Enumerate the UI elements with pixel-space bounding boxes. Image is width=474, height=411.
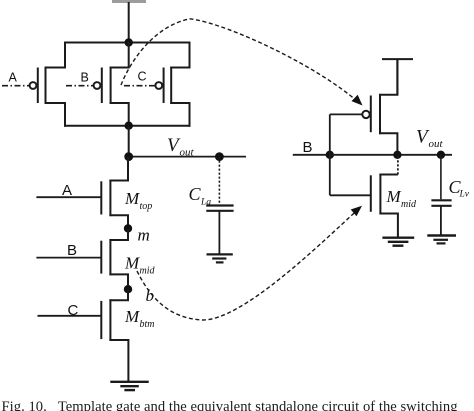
svg-text:B: B	[67, 242, 77, 259]
svg-text:M: M	[124, 307, 140, 326]
wire VDD stem (left)	[128, 2, 130, 43]
wire input A (stack)	[36, 196, 101, 198]
wire input B (stack)	[36, 257, 101, 259]
wire input C (stack)	[38, 315, 102, 317]
svg-text:out: out	[180, 147, 195, 159]
node Vout (right)	[437, 151, 445, 159]
wire VDD stem (right)	[396, 59, 398, 95]
svg-text:A: A	[62, 182, 72, 199]
ground (under C_Lv)	[427, 236, 456, 244]
capacitor C_Lg	[206, 157, 233, 254]
svg-text:C: C	[68, 302, 79, 319]
node top junction	[125, 38, 133, 46]
transistor M-B (PMOS B)	[94, 42, 129, 127]
wire stem to Vout row	[128, 126, 130, 157]
node bottom junction	[125, 122, 133, 130]
wire input A (dash-dot)	[2, 85, 30, 87]
capacitor C_Lv	[431, 155, 451, 235]
wire B to NMOS gate	[330, 194, 371, 196]
wire Vout row (left)	[129, 156, 246, 158]
svg-text:M: M	[386, 187, 402, 206]
svg-text:M: M	[124, 253, 140, 272]
transistor M-A (PMOS A)	[30, 42, 65, 127]
wire B to PMOS gate	[330, 113, 362, 115]
node Vout (left)	[124, 152, 133, 161]
transistor M_mid standalone (NMOS)	[371, 155, 398, 237]
svg-text:Lg: Lg	[200, 198, 211, 208]
wire B gate riser	[329, 114, 331, 195]
svg-text:C: C	[189, 184, 202, 204]
transistor M_btm (NMOS)	[101, 289, 128, 381]
dashed arrow bottom (node b region to standalone NMOS)	[137, 206, 362, 320]
dashed arrow top (pull-up network to standalone PMOS)	[121, 19, 363, 106]
node B (right)	[326, 151, 334, 159]
node CLg tap	[215, 152, 224, 161]
svg-text:m: m	[138, 225, 150, 244]
svg-text:top: top	[140, 201, 153, 212]
svg-text:btm: btm	[140, 319, 155, 330]
wire input B (dash-dot)	[66, 85, 94, 87]
svg-text:Lv: Lv	[459, 189, 470, 199]
ground (under C_Lg)	[207, 254, 233, 262]
node m	[124, 224, 132, 232]
wire B input (right)	[293, 154, 330, 156]
wire input C (dash-dot)	[124, 85, 155, 87]
node b	[124, 285, 132, 293]
svg-text:out: out	[429, 138, 444, 150]
power rail VDD bar (right)	[382, 58, 413, 60]
wire Vout row (right)	[330, 154, 452, 156]
svg-text:C: C	[138, 70, 147, 84]
wire top rail of PMOS network	[64, 42, 191, 44]
ground (standalone NMOS)	[382, 238, 414, 246]
svg-text:Fig. 10. Template gate and t: Fig. 10. Template gate and the equivalen…	[2, 399, 459, 411]
transistor standalone PMOS	[362, 59, 397, 155]
ground (stack bottom)	[110, 382, 148, 390]
svg-text:M: M	[124, 189, 140, 208]
svg-text:mid: mid	[140, 265, 156, 276]
wire bottom rail of PMOS network	[64, 125, 191, 127]
transistor M_top (NMOS)	[101, 157, 128, 229]
transistor M-C (PMOS C)	[155, 42, 189, 127]
svg-text:mid: mid	[401, 199, 417, 210]
node drain junction (right)	[393, 151, 401, 159]
svg-text:A: A	[9, 71, 18, 85]
power rail VDD bar (left, gray)	[112, 0, 146, 3]
svg-text:B: B	[81, 71, 89, 85]
svg-text:B: B	[303, 139, 313, 156]
transistor M_mid (NMOS, left)	[101, 228, 128, 289]
